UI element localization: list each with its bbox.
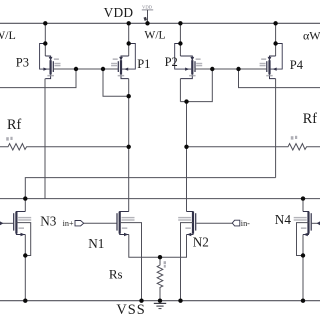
- wire N2 bulk to VSS: [181, 223, 194, 301]
- label W/L left (cut): [0, 28, 16, 42]
- svg-text:P2: P2: [165, 55, 178, 69]
- svg-text:N2: N2: [193, 234, 209, 249]
- junction Rf left tap: [127, 145, 131, 149]
- wire P3 source feed: [44, 23, 46, 56]
- svg-text:in+: in+: [63, 219, 74, 228]
- label P2: [165, 55, 178, 69]
- label Rf left: [7, 117, 21, 133]
- svg-text:VDD: VDD: [104, 5, 134, 20]
- wire VDD rail: [0, 22, 320, 24]
- wire N3 drain feed: [24, 199, 26, 212]
- wire N4 bulk to source: [297, 223, 309, 256]
- ground: [154, 303, 166, 308]
- svg-text:VDD: VDD: [142, 5, 153, 10]
- transistor N2: [178, 212, 196, 237]
- label P3: [16, 56, 29, 70]
- resistor Rf left: [0, 137, 129, 150]
- junction VSS-N4: [301, 299, 305, 303]
- label Rs: [109, 267, 123, 282]
- wire right off-page gate wire: [239, 69, 320, 88]
- transistor P3: [40, 41, 61, 78]
- label N3: [40, 214, 57, 229]
- transistor N4: [294, 212, 312, 237]
- wire wire-A cross-couple: [0, 198, 320, 200]
- wire N3 gate lead off-page: [0, 222, 13, 224]
- junction N3 bulk-source: [23, 253, 27, 257]
- wire P3 drain column: [44, 79, 46, 199]
- junction VDD-P4: [273, 21, 277, 25]
- svg-text:P1: P1: [137, 57, 150, 71]
- junction VDD-P2: [178, 21, 182, 25]
- label W/L center: [144, 29, 165, 42]
- junction Rs tap: [158, 255, 162, 259]
- junction VDD-sym: [145, 21, 149, 25]
- label N1: [88, 236, 104, 251]
- svg-text:P4: P4: [290, 58, 304, 72]
- label P4: [290, 58, 304, 72]
- junction N3 drain node: [23, 196, 27, 200]
- svg-text:αW/L: αW/L: [303, 29, 320, 43]
- junction VSS-N1bulk: [139, 299, 143, 303]
- svg-text:W/L: W/L: [144, 29, 165, 42]
- svg-text:N4: N4: [275, 212, 292, 227]
- svg-text:Rs: Rs: [109, 267, 123, 282]
- junction gateL-offpage: [74, 67, 78, 71]
- junction VSS-N3: [23, 299, 27, 303]
- wire gate net P2-P4: [195, 68, 268, 70]
- wire left off-page gate wire: [0, 69, 76, 88]
- transistor P4: [260, 41, 283, 78]
- VDD power symbol: [142, 5, 153, 24]
- wire gate net P3-P1: [53, 68, 118, 70]
- transistor P1: [111, 41, 135, 78]
- transistor P2: [175, 41, 203, 78]
- transistor N3: [13, 212, 31, 237]
- left edge connector stub: [0, 221, 3, 225]
- right edge connector stub: [317, 221, 320, 225]
- label P1: [137, 57, 150, 71]
- junction VDD-P1: [127, 21, 131, 25]
- wire N4 source column: [302, 235, 304, 301]
- node in+ connector: [75, 221, 117, 226]
- junction P1 drain tie: [127, 94, 131, 98]
- svg-text:W/L: W/L: [0, 28, 16, 42]
- wire P4 source feed: [275, 23, 277, 56]
- wire P2 gate-drain bracket: [180, 69, 212, 102]
- junction VSS-N2bulk: [178, 299, 182, 303]
- wire N3 source column: [24, 235, 26, 301]
- label VSS: [116, 302, 145, 318]
- net label VDD: [104, 5, 134, 20]
- wire N1 bulk to VSS: [120, 223, 142, 301]
- wire P2 drain stub: [179, 79, 181, 102]
- svg-text:in-: in-: [241, 219, 250, 228]
- junction gateR-bracket: [210, 67, 214, 71]
- wire output2 column to N2: [186, 102, 188, 212]
- wire P1 source feed: [128, 23, 130, 56]
- label in-: [241, 219, 250, 228]
- svg-text:Rf: Rf: [7, 117, 21, 133]
- label in+: [63, 219, 74, 228]
- wire N4 gate lead off-page: [311, 222, 320, 224]
- wire P1 gate-drain bracket: [103, 69, 129, 96]
- wire P2 source feed: [179, 23, 181, 56]
- svg-text:P3: P3: [16, 56, 29, 70]
- wire wire-B cross-couple: [25, 178, 275, 199]
- junction gateL-bracket: [101, 67, 105, 71]
- svg-text:Rf: Rf: [303, 111, 317, 127]
- resistor Rs: [157, 257, 166, 301]
- node in- connector: [196, 220, 240, 226]
- wire N3 bulk to source: [16, 223, 30, 256]
- wire VSS rail: [0, 300, 320, 302]
- junction gateR-offpage: [236, 67, 240, 71]
- wire N4 drain feed: [302, 199, 304, 212]
- wire N1-N2 source interconnect: [129, 235, 187, 258]
- wire P4 drain column: [275, 79, 277, 178]
- junction VDD-P3: [43, 21, 47, 25]
- junction N4 bulk-source: [301, 253, 305, 257]
- wire output1 column P1-N1: [128, 79, 130, 212]
- transistor N1: [116, 212, 134, 237]
- svg-text:N1: N1: [88, 236, 104, 251]
- junction P2 drain tie: [184, 99, 188, 103]
- label N4: [275, 212, 292, 227]
- svg-text:N3: N3: [40, 214, 57, 229]
- label N2: [193, 234, 209, 249]
- junction Rf right tap: [184, 145, 188, 149]
- svg-text:VSS: VSS: [116, 302, 145, 318]
- junction VSS-Rs: [158, 299, 162, 303]
- label alpha-W/L right (cut): [303, 29, 320, 43]
- resistor Rf right: [187, 136, 320, 150]
- label Rf right: [303, 111, 317, 127]
- junction N4 drain node: [301, 196, 305, 200]
